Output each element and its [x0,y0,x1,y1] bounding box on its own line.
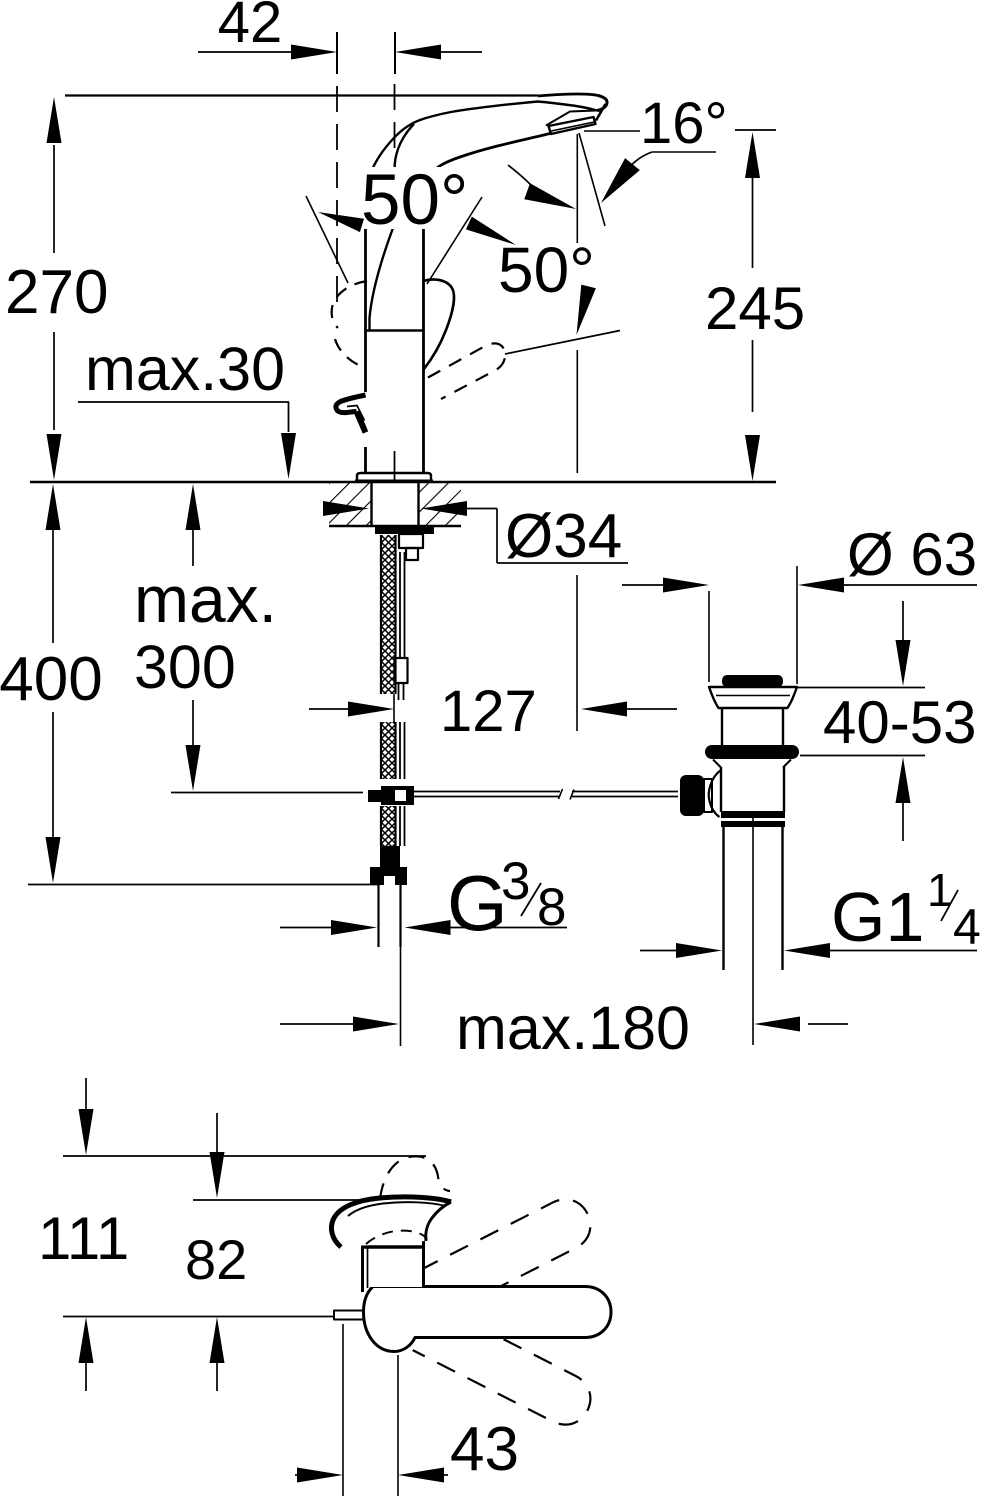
svg-text:max.180: max.180 [456,994,690,1062]
svg-text:82: 82 [185,1228,247,1291]
svg-text:43: 43 [450,1415,519,1484]
svg-text:300: 300 [134,633,236,701]
svg-text:max.30: max.30 [85,335,285,403]
svg-text:4: 4 [953,899,981,955]
svg-text:50°: 50° [361,161,468,240]
svg-text:Ø 63: Ø 63 [847,521,977,588]
svg-text:40-53: 40-53 [823,689,976,756]
svg-text:127: 127 [440,679,537,744]
svg-text:42: 42 [218,0,283,55]
svg-text:245: 245 [705,275,805,342]
svg-text:270: 270 [5,258,108,327]
svg-text:50°: 50° [498,234,595,306]
svg-text:max.: max. [134,562,277,636]
svg-text:400: 400 [0,645,103,714]
svg-text:G1: G1 [831,878,924,956]
svg-text:16°: 16° [640,91,728,156]
svg-text:111: 111 [38,1205,129,1272]
svg-text:Ø34: Ø34 [505,502,622,571]
svg-text:3: 3 [501,852,530,911]
svg-text:G: G [447,859,508,947]
